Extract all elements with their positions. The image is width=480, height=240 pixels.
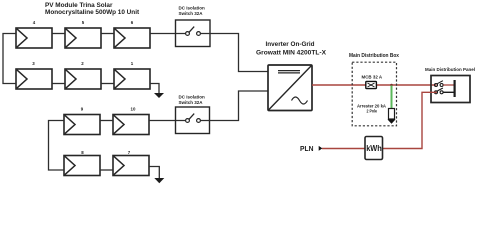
PV module 4 [16, 28, 52, 48]
main distribution panel box [431, 76, 470, 103]
svg-text:Growatt MIN 4200TL-X: Growatt MIN 4200TL-X [256, 49, 327, 56]
DC isolation switch S2 [176, 107, 210, 134]
inverter U1 [268, 65, 312, 111]
wire module10 to switch2 [149, 120, 186, 122]
PV module 7 [113, 156, 149, 176]
svg-text:2 Pole: 2 Pole [367, 108, 378, 113]
wire PLN to kWh meter [322, 148, 365, 150]
wire green earth to arrester [391, 86, 393, 110]
svg-text:Main Distribution Panel: Main Distribution Panel [425, 67, 475, 73]
DC isolation switch S1 [176, 20, 211, 47]
ground arrow string2 [154, 178, 164, 183]
wire module2-module1 [101, 83, 114, 85]
arrester ground arrow [388, 120, 396, 124]
breaker CB1 [435, 81, 455, 87]
svg-text:Switch 32A: Switch 32A [179, 11, 204, 16]
PV module 8 [64, 156, 100, 176]
wire AC red bus inverter to panel [312, 84, 436, 86]
svg-text:Monocrysltaline 500Wp 10 Unit: Monocrysltaline 500Wp 10 Unit [45, 9, 140, 16]
PV module 6 [114, 28, 150, 48]
svg-text:PLN: PLN [300, 144, 314, 153]
wire string2 left loop [49, 121, 65, 171]
PLN arrow terminal [319, 146, 323, 151]
svg-text:Inverter On-Grid: Inverter On-Grid [266, 41, 315, 48]
svg-text:10: 10 [131, 106, 136, 111]
wire module8-module7 [100, 169, 113, 171]
wire switch1 to inverter input1 [200, 34, 268, 72]
PV module 10 [113, 115, 149, 135]
MCB breaker [366, 81, 377, 88]
bus bar [454, 80, 456, 97]
main distribution box (dashed) [352, 62, 396, 126]
wire red kWh to panel breaker CB2 [383, 92, 437, 148]
PV module 1 [114, 69, 150, 89]
wire module1 exit to ground arrow [150, 84, 159, 94]
svg-text:MCB 32 A: MCB 32 A [362, 75, 383, 80]
breaker CB2 [435, 88, 455, 94]
wire module5-module6 [101, 33, 114, 35]
PV module 5 [65, 28, 101, 48]
wire module6 to switch1 [150, 33, 186, 35]
wire module4-module5 [52, 33, 65, 35]
svg-text:Main Distribution Box: Main Distribution Box [349, 53, 399, 59]
svg-text:DC Isolation: DC Isolation [179, 5, 206, 10]
wire module7 exit to ground arrow [149, 167, 159, 179]
wire module3-module2 [52, 83, 65, 85]
surge arrester F1 [389, 109, 395, 120]
junction dot [390, 84, 393, 87]
svg-text:Switch 32A: Switch 32A [179, 100, 204, 105]
svg-text:kWh: kWh [366, 144, 382, 153]
PV module 3 [16, 69, 52, 89]
wire string1 left loop [3, 34, 16, 84]
svg-text:DC Isolation: DC Isolation [179, 94, 206, 99]
svg-text:PV Module Trina Solar: PV Module Trina Solar [45, 2, 113, 9]
ground arrow string1 [154, 93, 164, 98]
wire module9-module10 [100, 120, 113, 122]
kWh meter M1 [365, 137, 383, 160]
PV module 2 [65, 69, 101, 89]
wire switch2 to inverter input2 [200, 91, 268, 121]
PV module 9 [64, 115, 100, 135]
